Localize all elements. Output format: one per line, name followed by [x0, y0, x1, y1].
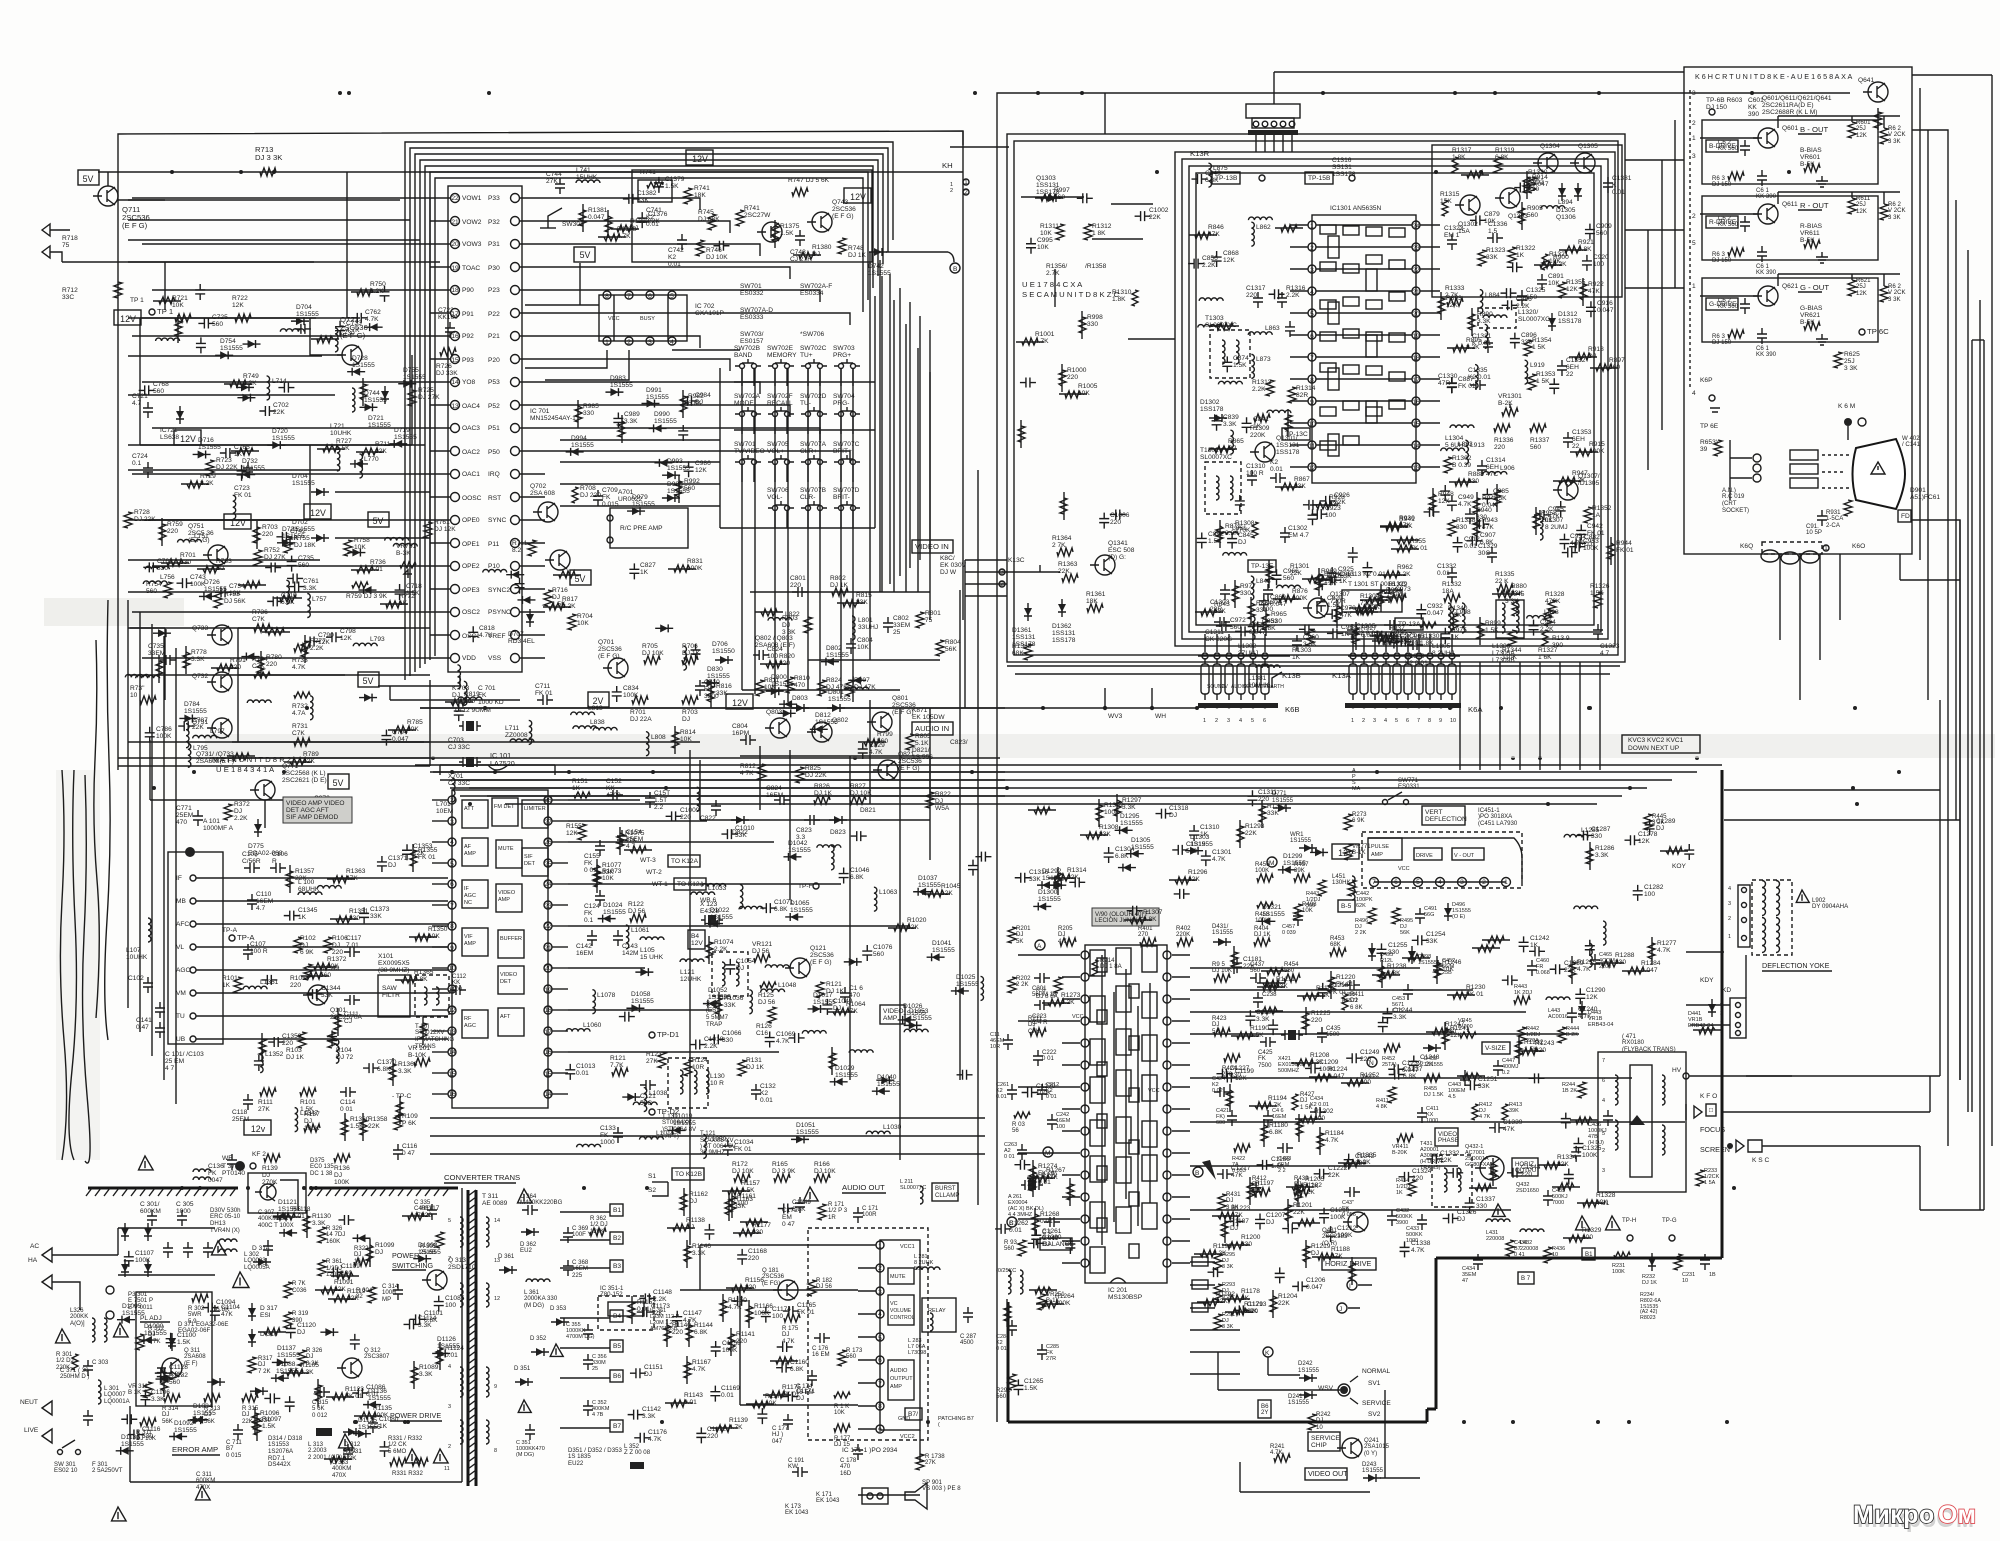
diode D1082 — [190, 1416, 208, 1424]
svg-text:C887: C887 — [1458, 376, 1474, 383]
svg-text:L107: L107 — [126, 947, 141, 954]
svg-text:0 47: 0 47 — [402, 1150, 415, 1157]
svg-text:100: 100 — [772, 1313, 783, 1320]
svg-text:5: 5 — [450, 861, 454, 868]
svg-text:250HM D ): 250HM D ) — [60, 1373, 89, 1380]
svg-text:C904: C904 — [1540, 619, 1556, 626]
resistor R126 C16 — [756, 1007, 776, 1037]
capacitor C953 — [1569, 538, 1599, 552]
resistor R1363 22K — [1058, 561, 1078, 582]
svg-text:C1109: C1109 — [341, 1263, 360, 1270]
label A101 1000MEA — [203, 818, 234, 832]
resistor R1096 — [252, 1407, 280, 1435]
label TP-F — [798, 883, 819, 890]
capacitor C1104 — [210, 1304, 240, 1321]
resistor R736 — [351, 559, 386, 573]
svg-text:4.7K: 4.7K — [1270, 1449, 1283, 1456]
svg-text:R1091: R1091 — [334, 1279, 354, 1286]
resistor R1200 — [1222, 1234, 1261, 1249]
svg-text:DJ 150: DJ 150 — [1712, 181, 1732, 188]
svg-text:MODE: MODE — [734, 400, 754, 407]
svg-text:220: 220 — [1412, 1175, 1423, 1182]
svg-text:CK 220G: CK 220G — [1205, 636, 1232, 643]
capacitor C152 4700 — [606, 778, 623, 800]
label POWER SWITCHING — [392, 1251, 434, 1270]
svg-text:C1244: C1244 — [1393, 1007, 1413, 1014]
resistor R1372 — [308, 956, 347, 970]
svg-text:2: 2 — [1692, 120, 1696, 127]
resistor R1317 1.8K — [1452, 147, 1472, 173]
svg-text:S2: S2 — [648, 1187, 656, 1194]
svg-text:TP 6C: TP 6C — [1867, 327, 1889, 336]
svg-text:5: 5 — [1251, 718, 1254, 724]
resistor R1152 — [628, 1296, 656, 1324]
inductor L1050 — [740, 885, 743, 909]
IC201 vcc labels — [1072, 1014, 1160, 1094]
capacitor C703 crystal — [448, 721, 481, 751]
svg-text:1S1555: 1S1555 — [277, 1352, 300, 1359]
svg-text:CHIP: CHIP — [1311, 1442, 1327, 1449]
svg-text:220: 220 — [1535, 1047, 1546, 1054]
svg-text:1S1555: 1S1555 — [710, 914, 733, 921]
capacitor C1216 — [1251, 1182, 1261, 1198]
diode D712 — [243, 340, 261, 348]
capacitor C1270 — [1022, 1083, 1056, 1097]
svg-text:R727: R727 — [336, 438, 352, 445]
svg-text:FK 01: FK 01 — [418, 854, 436, 861]
svg-text:C111: C111 — [344, 1011, 359, 1018]
svg-text:47K: 47K — [221, 1311, 233, 1318]
resistor R1073 — [594, 865, 622, 893]
resistor R1315 15K — [1440, 191, 1460, 216]
svg-text:C105: C105 — [242, 851, 258, 858]
svg-text:Q1303: Q1303 — [1036, 175, 1056, 182]
transistor Q733 — [192, 625, 232, 645]
svg-text:DJ: DJ — [1588, 353, 1596, 360]
svg-text:R1099: R1099 — [375, 1242, 395, 1249]
transistor Q741 — [757, 222, 782, 242]
resistor R1139 — [710, 1417, 748, 1432]
svg-text:Q732: Q732 — [192, 673, 208, 680]
capacitor C112 KK 100 — [450, 973, 467, 995]
svg-text:2SA1015: 2SA1015 — [1364, 1443, 1390, 1450]
svg-text:R126: R126 — [756, 1023, 772, 1030]
svg-text:22K: 22K — [192, 724, 204, 731]
svg-text:220K: 220K — [1250, 432, 1266, 439]
svg-text:C891: C891 — [1548, 273, 1564, 280]
svg-text:22K: 22K — [1440, 1157, 1452, 1164]
svg-text:11: 11 — [444, 1466, 450, 1472]
svg-text:21: 21 — [1412, 289, 1420, 296]
resistor R1197 — [1247, 1177, 1274, 1205]
svg-text:- TP-C: - TP-C — [392, 1093, 412, 1100]
svg-text:B5: B5 — [613, 1343, 621, 1350]
capacitor C852 — [1197, 531, 1224, 548]
svg-text:OAC2: OAC2 — [462, 449, 480, 456]
resistor R1211 — [1257, 976, 1295, 991]
resistor R1132 — [161, 1369, 188, 1397]
resistor R1264 — [1036, 1293, 1075, 1308]
diode D1065 — [785, 900, 813, 921]
svg-text:RD3 4EL: RD3 4EL — [508, 638, 535, 645]
capacitor C742 — [668, 234, 687, 268]
label POWER DRIVE — [390, 1411, 442, 1421]
svg-text:2.2K: 2.2K — [704, 1043, 718, 1050]
capacitor C263 001 — [1004, 1142, 1027, 1160]
svg-text:0 012: 0 012 — [312, 1412, 328, 1419]
svg-text:1K: 1K — [640, 569, 649, 576]
svg-text:2: 2 — [878, 1265, 882, 1272]
svg-text:10UHK: 10UHK — [126, 954, 148, 961]
capacitor C932 — [1416, 603, 1444, 620]
label SCREEN KSC — [1700, 1140, 1920, 1164]
capacitor C1287 — [1577, 826, 1610, 840]
svg-text:18: 18 — [544, 1007, 552, 1014]
svg-text:R918: R918 — [1588, 346, 1604, 353]
inductor L1078 — [592, 990, 615, 1014]
svg-text:K 6 H C R T U N I T: K 6 H C R T U N I T D 8 K E - A U E 1 6 … — [1695, 72, 1852, 81]
svg-text:R1146: R1146 — [692, 1243, 711, 1250]
svg-text:K6O: K6O — [1852, 543, 1865, 550]
svg-text:6: 6 — [1310, 333, 1314, 340]
resistor R941 — [1380, 516, 1415, 531]
label R1356 2.7K — [1046, 263, 1107, 277]
svg-text:470: 470 — [840, 1463, 851, 1470]
svg-text:C762: C762 — [365, 309, 381, 316]
diode D452 1S1555 — [1423, 1044, 1443, 1068]
svg-text:C984: C984 — [695, 392, 711, 399]
svg-text:VR121: VR121 — [752, 941, 772, 948]
svg-text:560: 560 — [873, 951, 884, 958]
svg-text:18K: 18K — [694, 192, 706, 199]
capacitor C945 — [1534, 506, 1564, 520]
svg-text:R1314: R1314 — [1296, 385, 1316, 392]
resistor R1161 — [729, 1190, 756, 1218]
svg-text:1SS131: 1SS131 — [1012, 634, 1036, 641]
svg-text:17: 17 — [1412, 377, 1420, 384]
error amp box — [136, 1292, 212, 1406]
capacitor C1049 — [822, 998, 852, 1015]
svg-text:120K: 120K — [590, 1228, 604, 1235]
label BALANCE — [1040, 1238, 1074, 1250]
resistor R443 1K — [1514, 984, 1532, 1004]
svg-text:P31: P31 — [488, 241, 500, 248]
resistor R1190 — [1231, 1025, 1269, 1039]
wire ic702 connections — [525, 263, 740, 380]
resistor R1309 — [1028, 807, 1056, 814]
resistor R789 — [284, 751, 319, 765]
inductor L313 — [308, 1428, 342, 1461]
diode D823 — [779, 700, 797, 708]
resistor R182 DJ 56 — [808, 1277, 833, 1296]
svg-text:22K: 22K — [1245, 830, 1257, 837]
resistor R202 2.2K — [1008, 975, 1031, 993]
svg-text:R101: R101 — [300, 1099, 316, 1106]
capacitor C222 001 — [1033, 1049, 1057, 1066]
capacitor C1245 — [1529, 946, 1545, 956]
svg-text:TP-H: TP-H — [1622, 1217, 1636, 1224]
svg-text:1.5K: 1.5K — [1271, 1163, 1285, 1170]
inductor L1352 — [260, 1049, 284, 1073]
capacitor C1324 — [1398, 1168, 1431, 1182]
resistor R622 base — [1712, 328, 1777, 358]
resistor R1274 — [1029, 1160, 1058, 1188]
capacitor C802 33EM — [883, 615, 910, 636]
svg-text:C786: C786 — [156, 726, 172, 733]
svg-text:D1098: D1098 — [418, 1242, 438, 1249]
inductor L913 — [1465, 440, 1485, 464]
op-amp U4 IC101 LA7520 — [432, 751, 568, 1108]
svg-text:C1332: C1332 — [1440, 1150, 1460, 1157]
label TP-13E — [1248, 560, 1310, 577]
svg-text:C886: C886 — [1516, 296, 1532, 303]
capacitor C431 0.056 — [1342, 1187, 1360, 1218]
svg-text:D1025: D1025 — [956, 974, 976, 981]
svg-text:C1344: C1344 — [321, 985, 341, 992]
resistor R1366 — [396, 1096, 403, 1124]
svg-text:R1089: R1089 — [419, 1364, 439, 1371]
svg-text:L1033: L1033 — [708, 885, 727, 892]
resistor R306 C036 — [284, 1280, 307, 1298]
svg-text:5WR: 5WR — [188, 1311, 202, 1318]
capacitor C767 — [295, 324, 311, 334]
svg-text:R865: R865 — [1228, 438, 1244, 445]
svg-text:0.01: 0.01 — [684, 1399, 697, 1406]
resistor R791 — [211, 657, 246, 671]
svg-text:1S1555: 1S1555 — [358, 1424, 381, 1431]
svg-text:56K: 56K — [945, 646, 957, 653]
node WF KF2 — [222, 1151, 266, 1171]
svg-text:33K: 33K — [1267, 810, 1279, 817]
svg-text:MA: MA — [1352, 786, 1361, 792]
capacitor C910 — [1549, 378, 1559, 394]
svg-text:100K: 100K — [1582, 1152, 1598, 1159]
diode D1098 — [413, 1242, 441, 1263]
svg-text:DJ: DJ — [1457, 1216, 1465, 1223]
capacitor C986 — [684, 460, 712, 477]
svg-text:K F O: K F O — [1700, 1093, 1717, 1100]
svg-text:220: 220 — [1067, 374, 1078, 381]
svg-text:100R: 100R — [862, 1211, 877, 1218]
capacitor C823 pair — [796, 815, 820, 841]
diode D1313 — [1118, 864, 1136, 872]
capacitor C938 — [1362, 562, 1372, 578]
svg-text:1S1555: 1S1555 — [815, 719, 838, 726]
capacitor C1318 — [1155, 805, 1188, 819]
capacitor C1311 CK220G — [1205, 617, 1232, 643]
svg-text:12K: 12K — [1566, 286, 1578, 293]
resistor R1105 — [281, 1362, 319, 1376]
svg-text:(E F G): (E F G) — [810, 959, 832, 966]
svg-text:P50: P50 — [488, 449, 500, 456]
diode D1129 — [352, 1234, 370, 1242]
svg-text:C1310: C1310 — [1246, 463, 1266, 470]
svg-text:C102: C102 — [128, 975, 144, 982]
svg-text:B-3K: B-3K — [396, 550, 411, 557]
svg-text:22K: 22K — [375, 448, 387, 455]
capacitor C1114 — [404, 1315, 437, 1329]
resistor R244 1.2K — [1562, 1082, 1586, 1098]
svg-text:56K: 56K — [162, 1418, 173, 1425]
resistor R1354 — [259, 1033, 266, 1061]
svg-text:DJ: DJ — [1169, 812, 1177, 819]
capacitor C874 — [1222, 355, 1249, 372]
svg-text:B-5K: B-5K — [1800, 237, 1815, 244]
svg-text:VR1301: VR1301 — [1498, 393, 1522, 400]
resistor R930 — [1380, 515, 1415, 529]
svg-text:2SC27W: 2SC27W — [744, 212, 771, 219]
inductor L795 — [188, 743, 208, 767]
svg-text:B7: B7 — [613, 1423, 621, 1430]
resistor R723b — [206, 457, 238, 476]
svg-text:D1052: D1052 — [708, 987, 728, 994]
svg-text:1S1555: 1S1555 — [796, 1129, 819, 1136]
svg-text:VC: VC — [890, 1301, 898, 1307]
svg-text:20: 20 — [451, 241, 459, 248]
svg-text:10K: 10K — [1040, 230, 1052, 237]
label CONVERTER TRANS — [444, 1173, 520, 1183]
resistor R1123 — [326, 1386, 364, 1400]
svg-text:R748: R748 — [848, 245, 864, 252]
svg-text:R1219: R1219 — [1311, 1243, 1331, 1250]
svg-text:1.5K: 1.5K — [780, 230, 794, 237]
switch SW301 — [540, 208, 584, 228]
resistor R753 — [214, 591, 246, 608]
svg-text:VCC2: VCC2 — [900, 1434, 915, 1440]
svg-text:4: 4 — [1384, 718, 1387, 724]
svg-text:6: 6 — [1602, 1078, 1605, 1084]
svg-text:VM: VM — [176, 990, 186, 997]
svg-text:D707: D707 — [508, 631, 524, 638]
capacitor C1311 — [1247, 789, 1277, 806]
diode D1126 — [432, 1336, 460, 1357]
svg-text:R805: R805 — [915, 733, 931, 740]
transformer T121 SC0005XV — [706, 952, 748, 1028]
resistor R1330 — [1552, 1183, 1580, 1190]
CRT socket labels — [1722, 487, 1749, 514]
svg-text:5: 5 — [448, 1218, 451, 1224]
connector K13A — [1332, 671, 1352, 680]
node M circle — [1043, 1147, 1053, 1157]
svg-text:12K: 12K — [1395, 593, 1407, 600]
svg-text:DJ 56K: DJ 56K — [224, 598, 246, 605]
svg-text:R703: R703 — [262, 524, 278, 531]
svg-text:AF: AF — [464, 844, 472, 850]
svg-text:P32: P32 — [488, 219, 500, 226]
svg-text:FK 01: FK 01 — [1466, 991, 1484, 998]
resistor R625 3.3K — [1834, 351, 1860, 372]
diode D775 — [248, 819, 283, 857]
svg-text:100: 100 — [767, 653, 778, 660]
svg-text:K13C: K13C — [1008, 557, 1025, 564]
svg-text:C1168: C1168 — [748, 1248, 767, 1255]
power label 12V br — [1332, 844, 1359, 859]
svg-text:1: 1 — [605, 339, 609, 346]
svg-text:R741: R741 — [694, 185, 710, 192]
resistor R1134 — [331, 1272, 359, 1279]
resistor R1235 — [1569, 956, 1597, 984]
diode D732 — [237, 458, 265, 479]
svg-text:K: K — [1265, 1350, 1270, 1357]
svg-text:1K: 1K — [222, 982, 231, 989]
svg-text:VERT: VERT — [1425, 809, 1442, 816]
svg-text:R1020: R1020 — [907, 917, 927, 924]
svg-text:39K: 39K — [1294, 867, 1305, 874]
svg-text:3.3K: 3.3K — [1393, 1014, 1407, 1021]
svg-text:22K: 22K — [1243, 963, 1255, 970]
wire if right fanout — [568, 800, 908, 1052]
svg-text:D1022: D1022 — [710, 907, 730, 914]
capacitor C1265 — [1013, 1378, 1043, 1395]
svg-text:C1318: C1318 — [1169, 805, 1189, 812]
svg-text:IRQ: IRQ — [488, 471, 500, 478]
svg-text:33K: 33K — [1478, 1083, 1490, 1090]
svg-text:47K: 47K — [1331, 1253, 1343, 1260]
capacitor C904 — [1529, 619, 1557, 636]
resistor R1138 — [667, 1217, 705, 1231]
svg-text:220: 220 — [1258, 796, 1269, 803]
resistor network K6B — [1198, 634, 1290, 700]
svg-text:C1343: C1343 — [1521, 1164, 1541, 1171]
svg-text:D1137: D1137 — [277, 1345, 296, 1352]
svg-text:1S1555: 1S1555 — [418, 1249, 441, 1256]
svg-text:C824: C824 — [767, 646, 783, 653]
svg-text:C/56R: C/56R — [242, 858, 261, 865]
capacitor C1282 — [1633, 884, 1664, 901]
svg-text:LA7520: LA7520 — [490, 759, 515, 768]
svg-text:R1246: R1246 — [1442, 959, 1462, 966]
svg-text:R1363: R1363 — [346, 868, 366, 875]
capacitor C117 — [344, 935, 362, 957]
inductor L1027 — [577, 1144, 601, 1147]
diode D316 — [248, 1329, 278, 1347]
svg-text:330: 330 — [157, 565, 168, 572]
svg-text:4: 4 — [670, 339, 674, 346]
resistor R1302 B 0.39 — [1444, 455, 1472, 473]
resistor network K6A — [1348, 634, 1460, 700]
svg-text:DJ 1.5K: DJ 1.5K — [1424, 1092, 1444, 1098]
wire secam inner loop — [1175, 152, 1615, 646]
capacitor C914 10.5P — [1806, 510, 1827, 536]
svg-text:(E F G): (E F G) — [598, 653, 620, 660]
svg-text:SW703/: SW703/ — [740, 331, 764, 338]
svg-text:AUDIO OUT: AUDIO OUT — [842, 1183, 885, 1192]
svg-text:1S1555: 1S1555 — [352, 362, 375, 369]
resistor R445 DJ 3.2K — [1644, 813, 1667, 830]
switch SW707A CLR+ — [800, 441, 827, 482]
resistor R1321 10K — [1542, 251, 1569, 270]
svg-text:3: 3 — [1602, 1168, 1605, 1174]
svg-text:1SS131: 1SS131 — [1276, 442, 1300, 449]
svg-text:R165: R165 — [772, 1161, 788, 1168]
svg-text:DJ 10K: DJ 10K — [1212, 967, 1232, 974]
wire B stage nets — [1700, 116, 1900, 138]
capacitor C1062 — [957, 1070, 973, 1080]
svg-text:R1188: R1188 — [1331, 1246, 1350, 1253]
svg-text:R8023: R8023 — [1640, 1315, 1656, 1321]
svg-text:MS130BSP: MS130BSP — [1108, 1294, 1143, 1301]
resistor R1272 — [1029, 1169, 1058, 1197]
resistor R1045 — [922, 883, 961, 897]
label D821 — [860, 807, 876, 814]
svg-text:19: 19 — [1412, 333, 1420, 340]
transistor Q1307 — [1303, 591, 1350, 618]
svg-text:EM 4.7: EM 4.7 — [1288, 532, 1309, 539]
diode D317 ESI — [248, 1303, 278, 1321]
capacitor C1115 — [121, 1414, 137, 1424]
diode D771 1S1555 wr1 — [1290, 831, 1317, 852]
svg-text:3 3K: 3 3K — [1888, 296, 1901, 303]
